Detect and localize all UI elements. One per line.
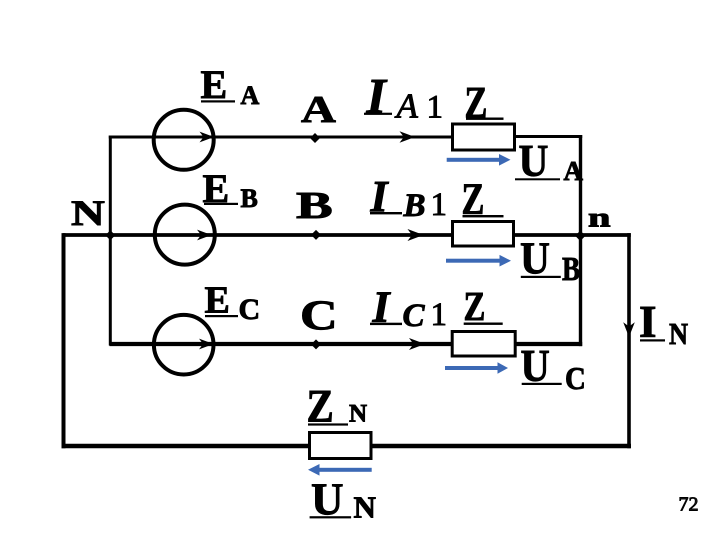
label Z phase A xyxy=(464,78,503,127)
svg-text:A: A xyxy=(241,81,260,110)
label Z phase C xyxy=(464,285,503,330)
label I_B1 xyxy=(370,172,448,224)
label E_A xyxy=(201,62,260,110)
wire: left vertical from N down to bottom neutral xyxy=(62,233,66,448)
svg-text:N: N xyxy=(349,400,367,427)
current arrowhead on phase C wire xyxy=(409,338,425,350)
label E_C xyxy=(205,280,261,327)
blue voltage arrow U_B (right) xyxy=(446,255,511,267)
EMF E_B arrow inside circle xyxy=(197,230,212,241)
wire: phase B horizontal, source side xyxy=(63,233,452,237)
label I_N xyxy=(639,297,688,352)
svg-text:1: 1 xyxy=(427,90,444,126)
svg-text:C: C xyxy=(565,361,586,397)
svg-text:A: A xyxy=(395,87,419,126)
page number 72 xyxy=(679,494,699,516)
load impedance box Z phase C xyxy=(452,332,515,357)
label E_B xyxy=(203,166,258,213)
label Z phase B xyxy=(461,175,503,224)
EMF source E_B circle xyxy=(155,205,215,265)
svg-text:A: A xyxy=(301,89,337,131)
svg-text:I: I xyxy=(366,68,388,124)
wire: bottom neutral, left of Z_N box xyxy=(62,444,310,448)
label node N xyxy=(71,194,105,234)
blue voltage arrow U_C (right) xyxy=(445,362,508,374)
svg-text:1: 1 xyxy=(431,187,448,223)
label U_A xyxy=(515,136,584,186)
svg-text:A: A xyxy=(564,156,584,186)
svg-text:B: B xyxy=(403,188,426,224)
wire: phase C horizontal, source side xyxy=(110,342,453,346)
neutral impedance box Z_N xyxy=(310,433,372,459)
wire: phase A horizontal, load side xyxy=(515,135,582,138)
EMF source E_C circle xyxy=(154,315,214,375)
wire: phase B horizontal from load box through n to right edge xyxy=(514,233,631,237)
svg-text:N: N xyxy=(669,317,688,351)
load impedance box Z phase A xyxy=(453,124,515,150)
node A junction dot xyxy=(310,133,320,143)
label node A xyxy=(301,89,337,131)
label U_N xyxy=(310,475,376,525)
load impedance box Z phase B xyxy=(453,222,514,247)
label I_A1 xyxy=(364,68,443,126)
label node C xyxy=(300,293,338,339)
current arrowhead on phase A wire xyxy=(400,131,416,143)
svg-text:N: N xyxy=(71,194,105,234)
svg-text:C: C xyxy=(403,298,426,334)
wire: bottom neutral, right of Z_N box xyxy=(372,444,632,448)
label U_B xyxy=(520,233,580,287)
svg-text:72: 72 xyxy=(679,494,699,516)
svg-text:B: B xyxy=(296,185,333,227)
current arrowhead I_N pointing down on right vertical xyxy=(623,322,635,337)
label I_C1 xyxy=(370,283,447,335)
blue voltage arrow U_N (left) xyxy=(308,464,372,476)
label node n xyxy=(588,203,611,233)
label U_C xyxy=(521,342,586,396)
EMF source E_A circle xyxy=(154,110,214,170)
node N junction dot xyxy=(105,230,115,240)
label node B xyxy=(296,185,333,227)
wire: neutral right vertical (I_N branch) xyxy=(627,233,631,448)
svg-text:1: 1 xyxy=(431,297,448,333)
EMF E_A arrow inside circle xyxy=(200,132,215,143)
label Z_N xyxy=(307,380,368,432)
wire: phase A horizontal, source side xyxy=(109,136,452,139)
svg-text:E: E xyxy=(201,62,228,107)
wire: phase C horizontal, load side xyxy=(515,342,582,346)
wire: right vertical joining loads at node n xyxy=(579,135,582,346)
svg-text:B: B xyxy=(241,184,258,213)
node B junction dot xyxy=(311,230,321,240)
EMF E_C arrow inside circle xyxy=(199,339,214,350)
blue voltage arrow U_A (right) xyxy=(447,154,511,166)
node C junction dot xyxy=(311,339,321,349)
current arrowhead on phase B wire xyxy=(408,229,424,241)
svg-text:N: N xyxy=(354,490,376,525)
svg-text:n: n xyxy=(588,203,611,233)
node n junction dot xyxy=(575,231,585,241)
wire: vertical from phase A down through N node to phase C xyxy=(109,136,112,346)
svg-text:C: C xyxy=(239,293,261,326)
svg-text:B: B xyxy=(562,250,580,288)
svg-text:C: C xyxy=(300,293,338,339)
